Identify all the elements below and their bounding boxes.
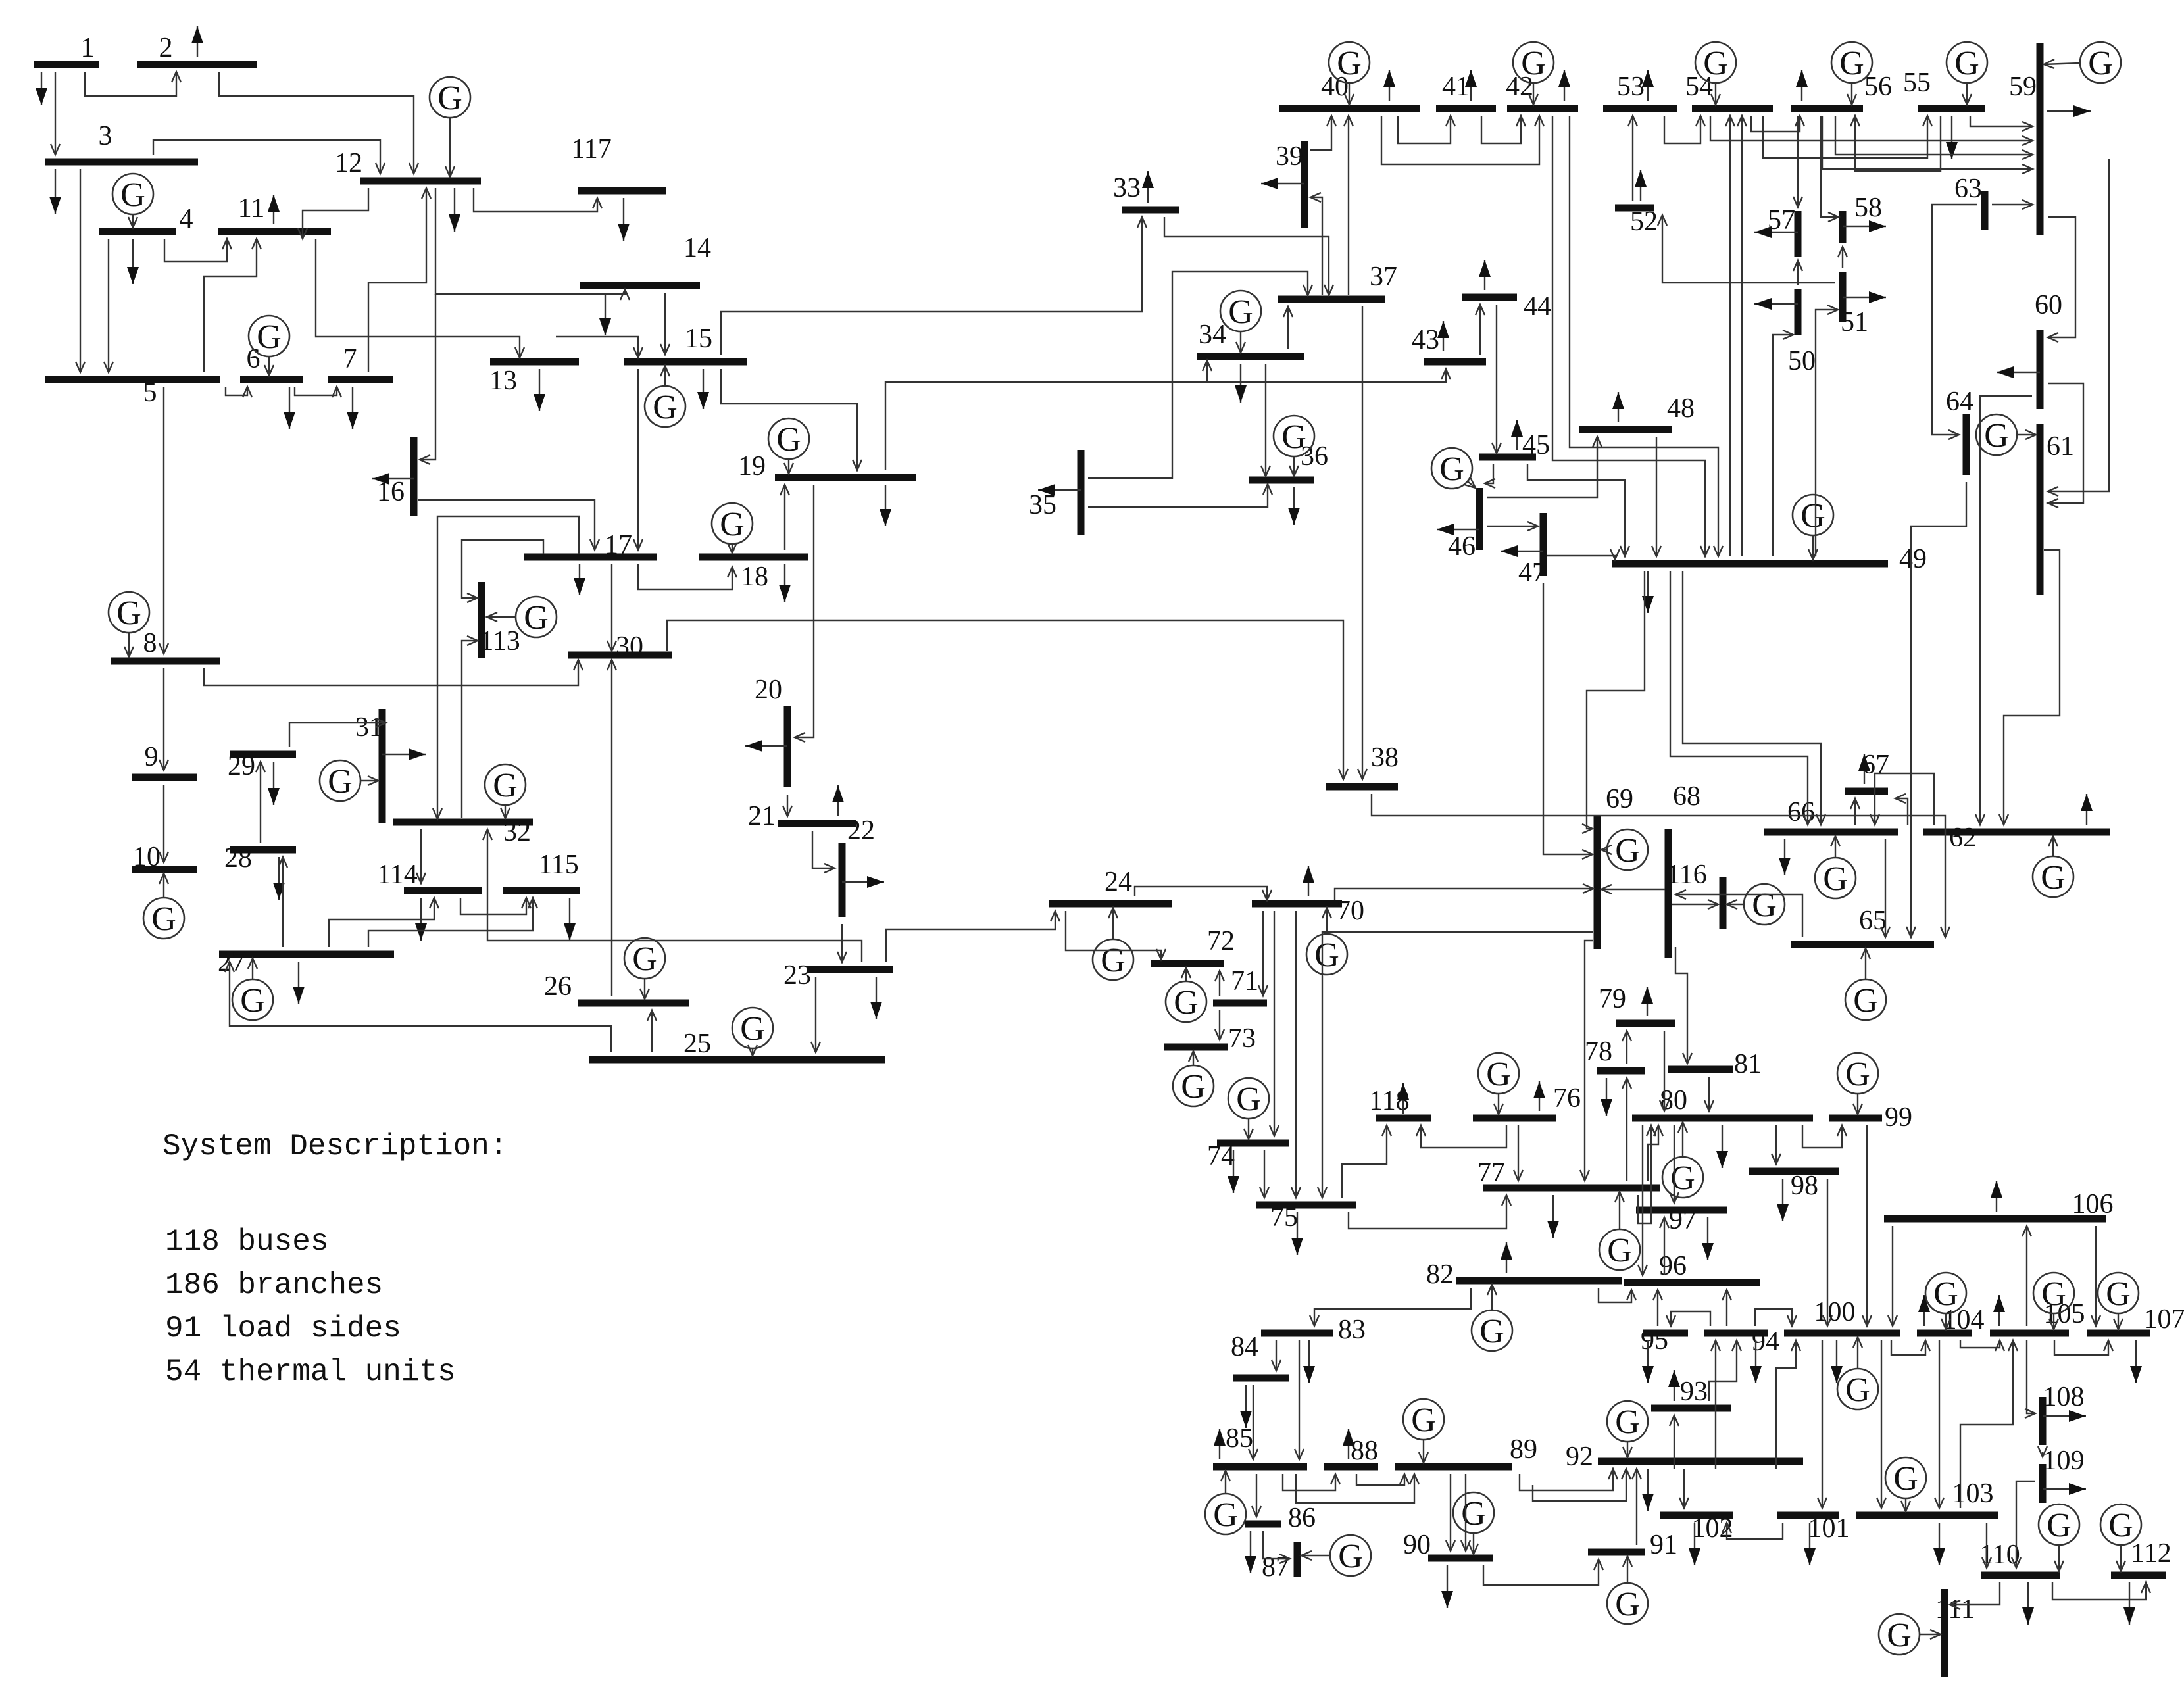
wire 34tap xyxy=(1203,360,1212,382)
wire 110-111 xyxy=(1950,1582,2000,1609)
wire 19-34-43 xyxy=(885,369,1451,470)
svg-text:57: 57 xyxy=(1768,205,1795,235)
load arrow at bus 58 xyxy=(1843,220,1886,232)
load arrow at bus 55 xyxy=(1946,116,1958,159)
svg-text:118 buses: 118 buses xyxy=(165,1225,328,1259)
wire 85-86 xyxy=(1252,1474,1261,1517)
load arrow at bus 94 xyxy=(1750,1340,1762,1383)
wire 105-107 xyxy=(2054,1340,2113,1355)
load arrow at bus 106 xyxy=(1991,1181,2002,1212)
bus 22 xyxy=(842,816,875,917)
svg-text:98: 98 xyxy=(1791,1171,1818,1201)
svg-text:21: 21 xyxy=(748,801,776,831)
wire 83-84 xyxy=(1272,1340,1281,1371)
wire 9-10 xyxy=(159,785,168,862)
svg-text:G: G xyxy=(524,599,549,637)
generator G at bus 107 xyxy=(2098,1273,2139,1329)
wire 100-101 xyxy=(1818,1340,1827,1508)
svg-text:32: 32 xyxy=(503,817,531,847)
wire 76-77 xyxy=(1514,1125,1523,1181)
svg-text:43: 43 xyxy=(1412,325,1439,355)
generator G at bus 32 xyxy=(485,764,526,818)
generator G at bus 105 xyxy=(2033,1273,2074,1329)
wire 14-15 xyxy=(660,293,670,355)
svg-text:14: 14 xyxy=(683,233,711,263)
load arrow at bus 44 xyxy=(1479,260,1491,290)
bus 47 xyxy=(1518,513,1546,588)
wire 49-50 xyxy=(1773,330,1793,556)
svg-text:68: 68 xyxy=(1673,781,1700,812)
svg-text:G: G xyxy=(1887,1617,1912,1654)
svg-text:88: 88 xyxy=(1351,1436,1378,1466)
generator G at bus 111 xyxy=(1879,1614,1941,1655)
wire 45-46 xyxy=(1485,464,1495,488)
bus 73 xyxy=(1164,1023,1256,1054)
load arrow at bus 22 xyxy=(842,876,884,888)
load arrow at bus 1 xyxy=(36,72,47,105)
load arrow at bus 52 xyxy=(1635,170,1647,201)
wire 35-36 xyxy=(1088,484,1272,507)
bus 17 xyxy=(524,530,657,560)
wire 83-85 xyxy=(1295,1340,1304,1459)
wire 56-57 xyxy=(1793,116,1802,207)
svg-text:G: G xyxy=(151,900,176,938)
bus 71 xyxy=(1213,966,1267,1003)
bus 90 xyxy=(1403,1530,1493,1560)
bus 57 xyxy=(1768,205,1798,257)
wire 76-118 xyxy=(1416,1125,1506,1148)
bus 105 xyxy=(1990,1299,2085,1333)
svg-text:G: G xyxy=(2106,1275,2131,1313)
svg-text:G: G xyxy=(2041,859,2066,896)
svg-text:G: G xyxy=(1181,1068,1206,1106)
svg-text:81: 81 xyxy=(1734,1049,1762,1079)
generator G at bus 12 xyxy=(430,77,470,177)
wire 103-104 xyxy=(1935,1340,1944,1508)
wire 4-5 xyxy=(104,239,113,372)
wire 26-30 xyxy=(607,660,616,996)
wire 11-13 xyxy=(316,239,524,358)
wire 99-100 xyxy=(1862,1125,1872,1326)
load arrow at bus 85 xyxy=(1214,1429,1226,1459)
wire 5-6 xyxy=(226,387,252,397)
bus 44 xyxy=(1462,291,1551,322)
load arrow at bus 78 xyxy=(1601,1078,1612,1116)
generator G at bus 100 xyxy=(1837,1337,1878,1409)
wire 30-38 xyxy=(667,620,1348,779)
load arrow at bus 42 xyxy=(1558,70,1570,101)
wire 20-21 xyxy=(783,795,792,816)
bus 3 xyxy=(45,121,198,162)
wire 77-80 xyxy=(1638,1125,1656,1223)
svg-text:112: 112 xyxy=(2131,1538,2171,1569)
wire 68-69 xyxy=(1601,885,1665,894)
bus 83 xyxy=(1261,1315,1366,1345)
bus 88 xyxy=(1324,1436,1378,1467)
wire 8-9 xyxy=(159,668,168,770)
wire 40-41 xyxy=(1398,116,1455,143)
wire 105-108 xyxy=(2025,1340,2035,1418)
wire 98-100 xyxy=(1823,1179,1832,1326)
generator G at bus 49 xyxy=(1793,495,1833,560)
bus 115 xyxy=(503,850,580,891)
bus 118 xyxy=(1369,1086,1431,1118)
wire 94-100 xyxy=(1755,1309,1797,1326)
load arrow at bus 12 xyxy=(449,188,460,232)
wire 101-102 xyxy=(1722,1523,1783,1539)
svg-text:7: 7 xyxy=(343,344,357,374)
wire 77-78 xyxy=(1622,1078,1631,1181)
generator G at bus 24 xyxy=(1093,908,1133,980)
wire 55-56 xyxy=(1850,116,1941,171)
svg-text:45: 45 xyxy=(1522,430,1550,460)
load arrow at bus 35 xyxy=(1038,484,1081,496)
wire 65-68 xyxy=(1675,890,1802,937)
svg-text:G: G xyxy=(632,941,657,978)
svg-text:19: 19 xyxy=(738,451,766,481)
bus 54 xyxy=(1685,72,1773,109)
bus 14 xyxy=(580,233,711,285)
bus 50 xyxy=(1788,289,1816,376)
svg-text:26: 26 xyxy=(544,971,572,1002)
wire 105-106 xyxy=(2022,1226,2031,1326)
wire 32-113 xyxy=(462,636,478,818)
load arrow at bus 46 xyxy=(1437,524,1479,535)
load arrow at bus 51 xyxy=(1843,291,1886,303)
load arrow at bus 107 xyxy=(2130,1340,2142,1383)
wire 54-55 xyxy=(1763,116,1932,158)
svg-text:34: 34 xyxy=(1199,320,1226,350)
svg-text:117: 117 xyxy=(571,134,611,164)
bus 61 xyxy=(2040,424,2074,595)
wire 17-18 xyxy=(638,564,737,589)
svg-text:27: 27 xyxy=(218,947,245,977)
wire 5-8 xyxy=(159,387,168,654)
load arrow at bus 66 xyxy=(1779,839,1791,875)
load arrow at bus 40 xyxy=(1383,70,1395,101)
bus 43 xyxy=(1412,325,1486,362)
bus 56 xyxy=(1791,72,1892,109)
svg-text:G: G xyxy=(1314,937,1339,974)
svg-text:3: 3 xyxy=(99,121,112,151)
bus 84 xyxy=(1231,1332,1289,1378)
svg-text:29: 29 xyxy=(228,751,255,781)
wire 19-20 xyxy=(795,485,814,742)
bus 99 xyxy=(1829,1102,1912,1133)
svg-text:73: 73 xyxy=(1228,1023,1256,1054)
wire 80-96 xyxy=(1638,1125,1647,1275)
bus 41 xyxy=(1436,72,1496,109)
load arrow at bus 70 xyxy=(1303,866,1314,896)
svg-text:101: 101 xyxy=(1808,1513,1850,1544)
generator G at bus 54 xyxy=(1695,42,1736,105)
svg-text:G: G xyxy=(720,506,745,543)
wire 56-59b xyxy=(1822,116,2033,174)
load arrow at bus 60 xyxy=(1997,366,2040,378)
wire 88-89 xyxy=(1356,1474,1409,1485)
bus 100 xyxy=(1784,1297,1900,1333)
wire 62-67 xyxy=(1895,794,1908,825)
bus 58 xyxy=(1843,193,1882,243)
wire 109-110 xyxy=(2012,1481,2035,1568)
bus 101 xyxy=(1777,1513,1850,1544)
wire 49-66 xyxy=(1670,571,1812,825)
wire 15-19 xyxy=(721,369,862,470)
wire 89-92b xyxy=(1533,1469,1631,1501)
wire 78-79 xyxy=(1622,1031,1631,1064)
svg-text:G: G xyxy=(2041,1275,2066,1313)
load arrow at bus 3 xyxy=(49,169,61,214)
svg-text:G: G xyxy=(1337,45,1362,82)
svg-text:G: G xyxy=(1845,1371,1870,1409)
generator G at bus 55 xyxy=(1947,42,1987,105)
wire 55-59 xyxy=(1970,116,2033,131)
svg-text:64: 64 xyxy=(1946,387,1973,417)
svg-text:58: 58 xyxy=(1854,193,1882,223)
wire 28-29 xyxy=(256,762,265,843)
svg-text:8: 8 xyxy=(143,628,157,658)
svg-text:108: 108 xyxy=(2043,1382,2085,1412)
svg-text:G: G xyxy=(116,595,141,632)
wire 77-80b xyxy=(1648,1125,1663,1181)
bus 77 xyxy=(1477,1158,1660,1188)
load arrow at bus 90 xyxy=(1441,1565,1453,1608)
svg-text:70: 70 xyxy=(1337,896,1364,926)
bus 12 xyxy=(335,148,481,181)
svg-text:G: G xyxy=(740,1010,765,1048)
wire 63-64 xyxy=(1932,205,1977,439)
wire 90-91 xyxy=(1483,1559,1603,1585)
svg-text:91 load sides: 91 load sides xyxy=(165,1311,401,1346)
wire 79-80 xyxy=(1660,1031,1669,1111)
bus 25 xyxy=(589,1029,885,1060)
svg-text:37: 37 xyxy=(1370,262,1397,292)
svg-text:53: 53 xyxy=(1617,72,1645,102)
svg-text:4: 4 xyxy=(180,204,193,234)
svg-text:89: 89 xyxy=(1510,1434,1537,1465)
bus 111 xyxy=(1935,1589,1975,1677)
wire 56-59 xyxy=(1835,116,2033,159)
generator G at bus 31 xyxy=(320,760,378,801)
bus 48 xyxy=(1579,393,1695,429)
wire 95-96 xyxy=(1653,1290,1662,1326)
bus 60 xyxy=(2035,290,2062,409)
svg-text:G: G xyxy=(1853,982,1878,1019)
bus 46 xyxy=(1448,488,1479,562)
svg-text:22: 22 xyxy=(847,816,875,846)
generator G at bus 34 xyxy=(1220,291,1261,353)
bus 93 xyxy=(1651,1377,1731,1408)
load arrow at bus 76 xyxy=(1533,1081,1545,1111)
system description text xyxy=(162,1129,508,1389)
bus 19 xyxy=(738,451,916,481)
load arrow at bus 45 xyxy=(1511,420,1523,450)
load arrow at bus 74 xyxy=(1228,1150,1239,1193)
wire 64-65 xyxy=(1906,482,1966,937)
bus 38 xyxy=(1326,743,1399,787)
bus 66 xyxy=(1764,797,1898,832)
wire 37-40 xyxy=(1344,116,1353,295)
svg-text:109: 109 xyxy=(2043,1446,2085,1476)
bus 7 xyxy=(328,344,393,379)
bus 76 xyxy=(1473,1083,1581,1118)
wire 6-7 xyxy=(295,387,341,397)
wire 75-118 xyxy=(1342,1125,1391,1198)
svg-text:76: 76 xyxy=(1553,1083,1581,1114)
generator G at bus 74 xyxy=(1228,1078,1269,1139)
bus 21 xyxy=(748,801,856,831)
wire 91-92 xyxy=(1632,1469,1641,1545)
bus 85 xyxy=(1213,1423,1307,1467)
svg-text:90: 90 xyxy=(1403,1530,1431,1560)
svg-text:48: 48 xyxy=(1667,393,1695,424)
wire 86-87 xyxy=(1263,1531,1290,1563)
bus 112 xyxy=(2111,1538,2172,1575)
svg-text:G: G xyxy=(2108,1507,2133,1544)
bus 74 xyxy=(1207,1141,1289,1171)
svg-text:83: 83 xyxy=(1338,1315,1366,1345)
wire 89-90 xyxy=(1446,1474,1455,1551)
wire 23-32 xyxy=(483,829,862,962)
wire 59-63 xyxy=(1992,200,2033,209)
svg-text:G: G xyxy=(1281,418,1306,456)
wire 25-27 xyxy=(225,962,611,1052)
wire 17-31 xyxy=(433,516,579,819)
wire 85-88 xyxy=(1283,1474,1340,1490)
generator G at bus 99 xyxy=(1837,1053,1878,1114)
bus 70 xyxy=(1252,896,1364,926)
wire 35-37 xyxy=(1088,272,1312,478)
wire 5-11 xyxy=(204,239,261,372)
wire 8-30 xyxy=(204,660,583,685)
bus 113 xyxy=(480,582,520,658)
wire 40-42 xyxy=(1381,116,1544,164)
svg-text:G: G xyxy=(1839,45,1864,82)
wire 27-114 xyxy=(329,898,439,947)
bus 11 xyxy=(218,193,331,232)
wire 100-103 xyxy=(1877,1340,1886,1508)
svg-text:G: G xyxy=(437,80,462,117)
bus 20 xyxy=(755,675,787,787)
generator G at bus 66 xyxy=(1815,836,1856,898)
bus 37 xyxy=(1278,262,1397,299)
load arrow at bus 21 xyxy=(832,785,844,816)
svg-text:G: G xyxy=(1174,984,1199,1021)
svg-text:115: 115 xyxy=(538,850,578,880)
wire 62-66 xyxy=(1870,773,1934,825)
load arrow at bus 112 xyxy=(2123,1582,2135,1625)
bus 18 xyxy=(699,557,808,592)
svg-text:G: G xyxy=(776,421,801,458)
generator G at bus 18 xyxy=(712,503,753,553)
generator G at bus 36 xyxy=(1274,416,1314,476)
bus 34 xyxy=(1197,320,1304,356)
svg-text:44: 44 xyxy=(1524,291,1551,322)
wire 27-28 xyxy=(278,857,287,947)
wire 74-75 xyxy=(1260,1150,1269,1198)
bus 42 xyxy=(1506,72,1578,109)
load arrow at bus 36 xyxy=(1288,487,1300,525)
wire 12-16 xyxy=(420,294,435,464)
load arrow at bus 57 xyxy=(1754,226,1798,238)
svg-text:G: G xyxy=(1479,1313,1504,1350)
load arrow at bus 48 xyxy=(1612,392,1624,422)
load arrow at bus 79 xyxy=(1641,987,1653,1016)
load arrow at bus 23 xyxy=(870,977,882,1019)
wire 56-58 xyxy=(1821,116,1839,222)
load arrow at bus 103 xyxy=(1933,1523,1945,1565)
bus 2 xyxy=(137,33,257,64)
wire 32-114 xyxy=(416,829,426,883)
wire 100-106 xyxy=(1888,1226,1897,1326)
svg-text:G: G xyxy=(257,318,282,356)
wire 46-48 xyxy=(1487,437,1602,497)
svg-text:103: 103 xyxy=(1952,1479,1994,1509)
load arrow at bus 114 xyxy=(415,898,427,941)
load arrow at bus 49 xyxy=(1642,571,1654,613)
wire 42-49b xyxy=(1570,116,1723,556)
svg-text:25: 25 xyxy=(683,1029,711,1059)
bus 63 xyxy=(1954,174,1985,230)
svg-text:111: 111 xyxy=(1935,1594,1975,1625)
load arrow at bus 17 xyxy=(574,564,585,595)
generator G at bus 56 xyxy=(1831,42,1872,105)
svg-text:G: G xyxy=(1800,497,1825,535)
svg-text:20: 20 xyxy=(755,675,782,705)
load arrow at bus 2 xyxy=(191,26,203,57)
bus 59 xyxy=(2009,43,2040,235)
generator G at bus 116 xyxy=(1727,884,1785,925)
wire 50-57 xyxy=(1793,260,1802,285)
wire 108-109 xyxy=(2038,1446,2047,1457)
generator G at bus 59 xyxy=(2044,42,2121,83)
svg-text:51: 51 xyxy=(1841,307,1868,337)
load arrow at bus 82 xyxy=(1501,1242,1512,1273)
bus 62 xyxy=(1923,823,2110,853)
generator G at bus 61 xyxy=(1976,414,2036,455)
wire 114-115 xyxy=(460,898,531,914)
wire 23-25 xyxy=(811,977,820,1052)
bus 8 xyxy=(111,628,220,661)
wire 45-49 xyxy=(1527,464,1629,556)
wire 27-115 xyxy=(368,898,537,947)
svg-text:56: 56 xyxy=(1864,72,1892,102)
bus 109 xyxy=(2043,1446,2085,1503)
wire 103-105 xyxy=(1960,1340,2018,1508)
bus 108 xyxy=(2043,1382,2085,1445)
bus 13 xyxy=(489,362,579,396)
svg-text:G: G xyxy=(1228,293,1253,331)
svg-text:46: 46 xyxy=(1448,531,1476,562)
generator G at bus 65 xyxy=(1845,948,1886,1020)
load arrow at bus 115 xyxy=(564,898,576,941)
load arrow at bus 101 xyxy=(1804,1523,1816,1565)
bus 69 xyxy=(1597,784,1633,949)
wire 49-66b xyxy=(1683,571,1825,825)
bus 89 xyxy=(1395,1434,1537,1467)
wire 89-90b xyxy=(1461,1474,1470,1551)
bus 86 xyxy=(1245,1503,1316,1533)
wire 16-17 xyxy=(418,500,599,550)
bus 79 xyxy=(1599,984,1675,1023)
svg-text:54 thermal units: 54 thermal units xyxy=(165,1355,456,1389)
bus 24 xyxy=(1049,867,1172,904)
bus 117 xyxy=(571,134,666,191)
load arrow at bus 29 xyxy=(268,762,280,805)
wire 46-47 xyxy=(1487,522,1538,531)
wire 51-52 xyxy=(1658,215,1835,283)
load arrow at bus 102 xyxy=(1689,1523,1700,1565)
